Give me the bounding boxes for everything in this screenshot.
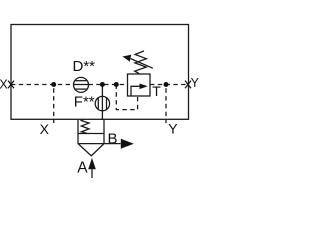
svg-text:A: A	[77, 159, 88, 176]
svg-text:Y: Y	[191, 76, 200, 90]
svg-text:F**: F**	[74, 93, 95, 110]
svg-text:T: T	[152, 83, 161, 99]
svg-text:D**: D**	[73, 58, 96, 75]
svg-text:Y: Y	[168, 120, 178, 136]
svg-text:X: X	[0, 77, 8, 91]
svg-text:X: X	[40, 121, 50, 137]
svg-text:B: B	[108, 131, 118, 148]
